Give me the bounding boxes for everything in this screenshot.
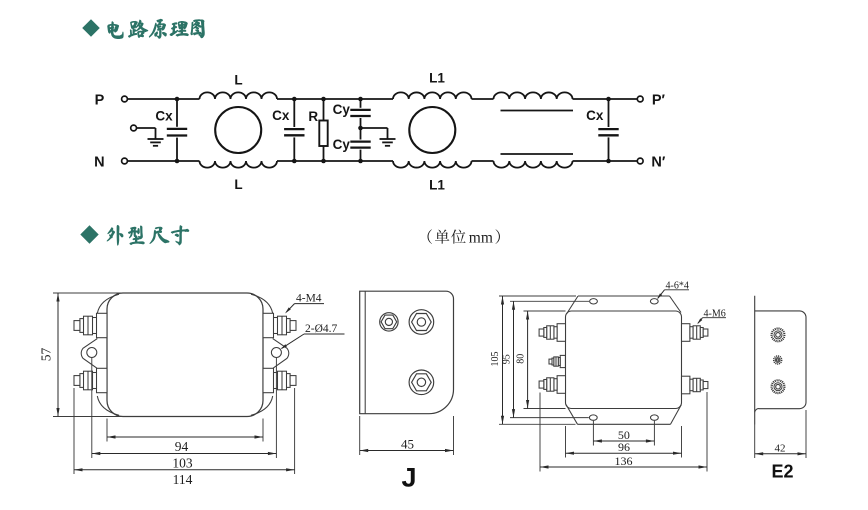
choke L1 bottom winding bbox=[393, 161, 472, 168]
wire L to L1 bottom rail bbox=[277, 160, 393, 162]
svg-text:L: L bbox=[234, 73, 242, 88]
svg-text:103: 103 bbox=[172, 455, 193, 470]
label J bbox=[401, 463, 416, 493]
node P (input terminal) bbox=[95, 93, 128, 109]
junction Cx1 bottom bbox=[175, 159, 180, 164]
dimension 42 bbox=[755, 442, 806, 455]
label Cy2 bbox=[333, 137, 351, 152]
choke L1 top winding bbox=[393, 92, 472, 99]
E2 body bbox=[566, 311, 682, 409]
capacitor Cy2 bbox=[350, 128, 370, 161]
ground G1 terminal bbox=[131, 125, 137, 131]
wire L2 to Cx3 bottom bbox=[573, 160, 638, 162]
J mounting ear right bbox=[271, 339, 288, 369]
choke L1 core circle bbox=[409, 107, 455, 153]
wire L2 to Cx3 top bbox=[573, 98, 638, 100]
svg-text:L1: L1 bbox=[429, 71, 445, 86]
E2 mount slot top-left bbox=[590, 299, 598, 304]
J cover seam bottom-left bbox=[97, 396, 119, 415]
E2 bottom flange bbox=[566, 405, 681, 425]
extension lines 50 bbox=[593, 421, 654, 446]
node P' (output terminal) bbox=[637, 93, 665, 109]
J front body bbox=[107, 293, 263, 417]
svg-text:N: N bbox=[94, 155, 104, 171]
svg-text:2-Ø4.7: 2-Ø4.7 bbox=[305, 323, 338, 335]
E2 top flange bbox=[567, 296, 682, 314]
capacitor Cy1 bbox=[350, 99, 370, 128]
E2 side terminal mid bbox=[774, 356, 782, 364]
svg-text:N′: N′ bbox=[651, 155, 665, 171]
junction Cy top bbox=[358, 97, 363, 102]
E2 terminal left-bottom bbox=[539, 376, 565, 394]
wire L1 to L2 top bbox=[472, 98, 494, 100]
svg-text:mm: mm bbox=[469, 230, 493, 247]
J side terminal top bbox=[409, 310, 434, 335]
E2 side body bbox=[755, 311, 806, 412]
dimension 136 bbox=[540, 454, 707, 469]
svg-text:J: J bbox=[401, 463, 416, 493]
dimension 114 bbox=[74, 468, 295, 487]
capacitor Cx3 bbox=[598, 99, 618, 161]
junction Cx2 bottom bbox=[292, 159, 297, 164]
E2 side terminal bottom bbox=[772, 380, 785, 393]
svg-text:57: 57 bbox=[39, 348, 54, 362]
inductor L2 top core bar bbox=[501, 110, 574, 112]
svg-text:45: 45 bbox=[401, 436, 414, 451]
extension lines 80 bbox=[524, 311, 566, 409]
wire N to L bottom-left bbox=[127, 160, 199, 162]
svg-text:80: 80 bbox=[515, 354, 526, 364]
inductor L2 bottom winding bbox=[494, 161, 573, 168]
unit note （单位 mm） bbox=[428, 229, 500, 246]
svg-text:94: 94 bbox=[175, 439, 189, 454]
label L bottom bbox=[234, 177, 242, 192]
extension lines 114 bbox=[74, 388, 295, 474]
E2 terminal left-top bbox=[539, 324, 565, 342]
capacitor Cx1 bbox=[167, 99, 187, 161]
junction Cy bottom bbox=[358, 159, 363, 164]
extension lines 96 bbox=[566, 426, 682, 458]
section marker diamond 2 bbox=[80, 225, 98, 243]
wire P to L top-left bbox=[127, 98, 199, 100]
dimension 96 bbox=[566, 440, 682, 455]
dimension 94 bbox=[107, 435, 263, 453]
extension lines 95 bbox=[510, 301, 589, 417]
svg-text:4-M4: 4-M4 bbox=[296, 293, 322, 305]
label Cy1 bbox=[333, 102, 351, 117]
dimension 80 bbox=[515, 311, 529, 409]
choke L top winding bbox=[200, 92, 278, 99]
E2 terminal left-mid bbox=[549, 355, 565, 367]
dimension 50 bbox=[593, 428, 654, 443]
svg-text:136: 136 bbox=[615, 454, 633, 468]
wire Cy mid to ground bbox=[361, 127, 388, 129]
extension lines 136 bbox=[540, 392, 707, 472]
svg-text:42: 42 bbox=[775, 442, 786, 454]
junction Cy mid bbox=[358, 126, 363, 131]
wire L1 to L2 bottom bbox=[472, 160, 494, 162]
label Cx2 bbox=[272, 108, 290, 123]
choke L core circle bbox=[215, 107, 261, 153]
section title 电路原理图 bbox=[108, 19, 205, 39]
junction Cx1 top bbox=[175, 97, 180, 102]
wire G1 to ground bbox=[137, 127, 156, 129]
junction Cx2 top bbox=[292, 97, 297, 102]
section title 外型尺寸 bbox=[107, 225, 189, 245]
J terminal stud top-left bbox=[74, 313, 107, 337]
svg-text:P: P bbox=[95, 93, 105, 109]
label E2 bbox=[771, 462, 793, 482]
label 2-Ø4.7 bbox=[280, 323, 345, 351]
capacitor Cx2 bbox=[284, 99, 304, 161]
E2 mount slot top-right bbox=[650, 299, 658, 304]
J side terminal bottom bbox=[409, 370, 434, 395]
label R bbox=[308, 109, 318, 124]
dimension 57 bbox=[39, 293, 60, 417]
extension lines 103 bbox=[92, 358, 277, 458]
J cover seam top-left bbox=[97, 294, 119, 313]
ground symbol 2 bbox=[380, 128, 396, 146]
label L1 top bbox=[429, 71, 445, 86]
node N' (output terminal) bbox=[637, 155, 666, 171]
junction R top bbox=[321, 97, 326, 102]
E2 side terminal top bbox=[772, 329, 785, 342]
label Cx1 bbox=[155, 109, 173, 124]
J cover seam bottom-right bbox=[251, 396, 273, 415]
E2 mount slot bottom-left bbox=[589, 415, 597, 420]
svg-text:105: 105 bbox=[490, 352, 501, 367]
label L1 bottom bbox=[429, 178, 445, 193]
extension lines 45 bbox=[360, 416, 454, 455]
label Cx3 bbox=[586, 108, 604, 123]
svg-text:Cy: Cy bbox=[333, 137, 351, 152]
wire L to L1 top rail bbox=[277, 98, 393, 100]
inductor L2 bottom core bar bbox=[501, 153, 574, 155]
junction R bottom bbox=[321, 159, 326, 164]
J cover seam top-right bbox=[251, 294, 273, 313]
section marker diamond 1 bbox=[82, 19, 100, 37]
label 4-M4 bbox=[284, 293, 324, 315]
svg-text:L: L bbox=[234, 177, 242, 192]
dimension 105 bbox=[490, 296, 504, 424]
J side flange line bbox=[364, 291, 366, 414]
label 4-M6 bbox=[696, 308, 726, 325]
extension lines 57 bbox=[53, 293, 122, 417]
resistor R bbox=[319, 99, 327, 161]
svg-text:Cx: Cx bbox=[586, 108, 604, 123]
svg-text:Cx: Cx bbox=[272, 108, 290, 123]
dimension 45 bbox=[360, 436, 454, 452]
J terminal stud bottom-left bbox=[74, 368, 107, 392]
svg-text:L1: L1 bbox=[429, 178, 445, 193]
J mounting ear left bbox=[81, 339, 97, 369]
svg-text:Cy: Cy bbox=[333, 102, 351, 117]
J side terminal small bbox=[380, 313, 398, 331]
svg-text:114: 114 bbox=[173, 472, 193, 487]
ground symbol 1 bbox=[148, 128, 164, 146]
extension lines 94 bbox=[107, 419, 263, 442]
J terminal stud top-right bbox=[263, 313, 296, 337]
svg-text:E2: E2 bbox=[771, 462, 793, 482]
E2 terminal right-bottom bbox=[682, 376, 708, 394]
node N (input terminal) bbox=[94, 155, 127, 171]
J side body bbox=[360, 291, 454, 414]
E2 terminal right-top bbox=[682, 324, 708, 342]
svg-text:96: 96 bbox=[618, 440, 630, 454]
J terminal stud bottom-right bbox=[263, 368, 296, 392]
label 4-6*4 bbox=[656, 281, 689, 301]
extension lines 105 bbox=[499, 296, 576, 424]
svg-text:P′: P′ bbox=[652, 93, 666, 109]
svg-text:R: R bbox=[308, 109, 318, 124]
dimension 95 bbox=[501, 301, 515, 417]
svg-text:Cx: Cx bbox=[155, 109, 173, 124]
choke L bottom winding bbox=[200, 161, 278, 168]
svg-text:95: 95 bbox=[501, 354, 512, 364]
E2 side flange bbox=[754, 296, 756, 425]
dimension 103 bbox=[92, 452, 277, 470]
junction Cx3 top bbox=[606, 97, 611, 102]
extension lines 42 bbox=[755, 410, 806, 458]
E2 mount slot bottom-right bbox=[651, 415, 659, 420]
junction Cx3 bottom bbox=[606, 159, 611, 164]
label L top bbox=[234, 73, 242, 88]
inductor L2 top winding bbox=[494, 92, 573, 99]
